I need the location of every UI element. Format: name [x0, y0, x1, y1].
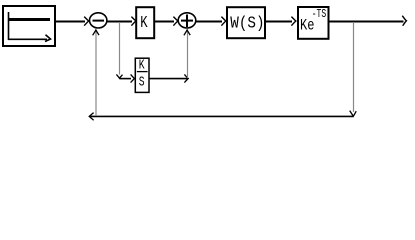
wire: output feedback down	[350, 22, 357, 116]
wire: branch down from main line to K/S row	[116, 22, 122, 78]
wire: feedback bottom run	[89, 113, 353, 121]
wire: K/S output to corner	[149, 74, 188, 82]
wire: feedback up into summer 1	[93, 30, 99, 116]
node: output feedback tap	[353, 21, 355, 23]
svg-text:W(S): W(S)	[230, 13, 264, 32]
wire: W(S) to delay block	[266, 17, 296, 26]
step input source block	[3, 6, 55, 46]
svg-text:-TS: -TS	[312, 7, 326, 21]
wire: summer 2 to W(S)	[196, 17, 226, 26]
wire: up into summer 2	[184, 30, 190, 78]
wire: K to summer 2	[155, 17, 178, 26]
delay block Ke^-TS	[298, 7, 329, 39]
transfer function block W(S)	[227, 7, 265, 38]
wire: into K/S block	[120, 74, 135, 82]
wire: source to summer 1	[55, 17, 89, 26]
integrator block K/S	[135, 57, 149, 92]
summing junction 2 (plus)	[178, 13, 196, 28]
svg-text:K: K	[139, 57, 146, 73]
gain block K	[136, 7, 154, 38]
wire: output	[329, 16, 406, 26]
node: branch tap to K/S	[119, 21, 121, 23]
wire: summer 1 to gain block K	[107, 17, 136, 26]
svg-text:K: K	[140, 14, 147, 32]
svg-text:S: S	[139, 74, 145, 90]
summing junction 1 (minus)	[90, 13, 107, 28]
